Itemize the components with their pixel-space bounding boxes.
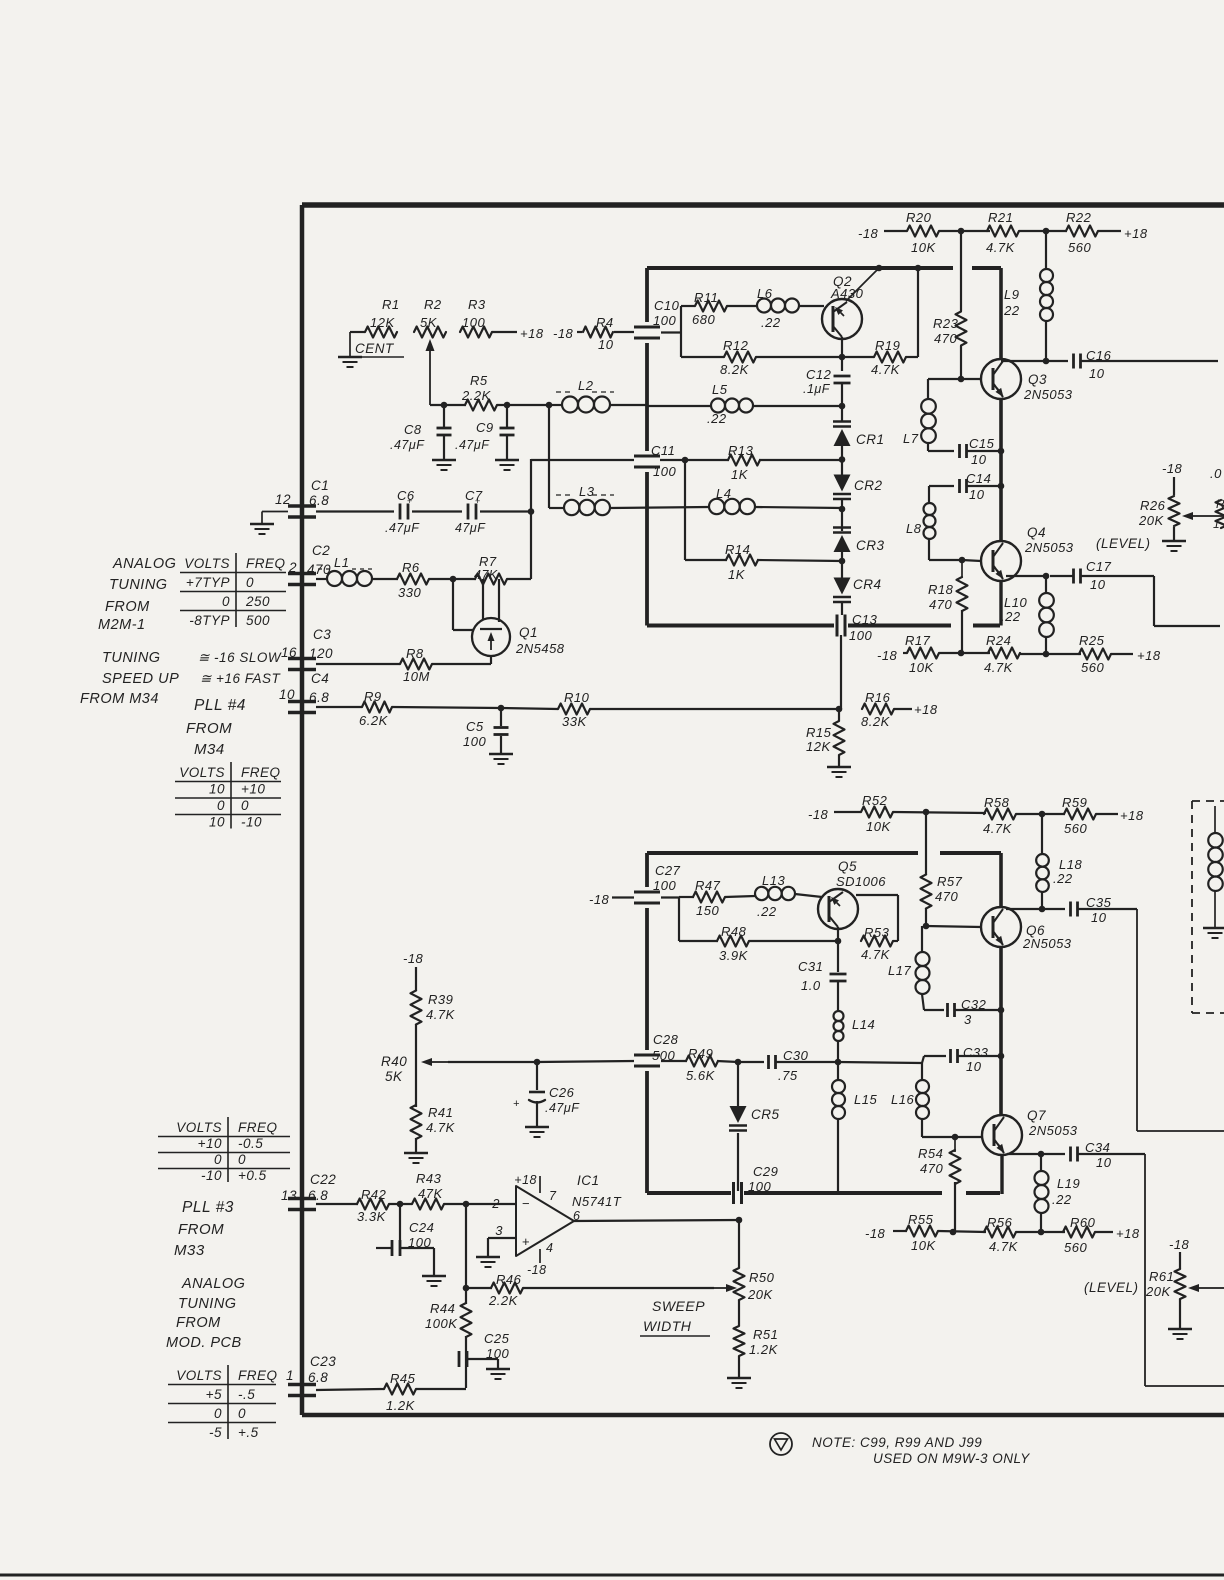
svg-text:C12: C12 (806, 367, 832, 382)
svg-text:20K: 20K (1145, 1284, 1171, 1299)
svg-text:-.5: -.5 (238, 1387, 255, 1402)
svg-text:4.7K: 4.7K (871, 362, 901, 377)
svg-text:C27: C27 (655, 863, 681, 878)
svg-text:L18: L18 (1059, 857, 1082, 872)
svg-text:+18: +18 (1137, 648, 1161, 663)
svg-text:R5: R5 (470, 373, 488, 388)
svg-text:-10: -10 (241, 815, 262, 830)
svg-text:470: 470 (935, 889, 958, 904)
svg-text:560: 560 (1068, 240, 1091, 255)
svg-text:VOLTS: VOLTS (176, 1368, 222, 1383)
svg-text:≅ -16 SLOW: ≅ -16 SLOW (198, 650, 282, 665)
svg-text:R43: R43 (416, 1171, 442, 1186)
svg-text:4.7K: 4.7K (984, 660, 1014, 675)
svg-text:6.8: 6.8 (309, 493, 329, 508)
svg-text:4.7K: 4.7K (861, 947, 891, 962)
svg-text:VOLTS: VOLTS (176, 1120, 222, 1135)
svg-text:C14: C14 (966, 471, 991, 486)
svg-text:100: 100 (849, 628, 872, 643)
svg-text:.47μF: .47μF (545, 1101, 580, 1115)
svg-text:R17: R17 (905, 633, 931, 648)
svg-text:CR1: CR1 (856, 432, 885, 447)
svg-text:CENT: CENT (355, 341, 395, 356)
svg-text:R51: R51 (753, 1327, 778, 1342)
svg-text:-18: -18 (403, 951, 424, 966)
svg-text:4.7K: 4.7K (989, 1239, 1019, 1254)
svg-text:10: 10 (966, 1059, 982, 1074)
svg-text:100: 100 (462, 315, 485, 330)
svg-text:.47μF: .47μF (390, 438, 425, 452)
svg-text:FREQ: FREQ (238, 1368, 278, 1383)
svg-text:47K: 47K (474, 568, 498, 582)
svg-text:IC1: IC1 (577, 1173, 600, 1188)
svg-text:1K: 1K (728, 567, 746, 582)
svg-text:R9: R9 (364, 689, 382, 704)
svg-text:R10: R10 (564, 690, 590, 705)
svg-text:-0.5: -0.5 (238, 1136, 263, 1151)
svg-text:R59: R59 (1062, 795, 1087, 810)
svg-text:L14: L14 (852, 1017, 875, 1032)
svg-text:+10: +10 (241, 782, 265, 797)
svg-text:6.8: 6.8 (308, 1370, 328, 1385)
svg-text:6.8: 6.8 (309, 690, 329, 705)
svg-text:10: 10 (1096, 1155, 1112, 1170)
svg-text:R40: R40 (381, 1054, 407, 1069)
svg-text:L9: L9 (1004, 287, 1019, 302)
svg-text:C22: C22 (310, 1172, 336, 1187)
svg-text:R1: R1 (382, 297, 400, 312)
svg-text:0: 0 (222, 594, 230, 609)
svg-text:R20: R20 (906, 210, 932, 225)
svg-text:1.0: 1.0 (801, 978, 821, 993)
svg-text:L7: L7 (903, 431, 919, 446)
svg-text:1.2K: 1.2K (386, 1398, 416, 1413)
svg-text:FROM: FROM (178, 1221, 224, 1238)
svg-text:2.2K: 2.2K (488, 1293, 519, 1308)
svg-text:R49: R49 (688, 1046, 713, 1061)
svg-text:10: 10 (1091, 910, 1107, 925)
svg-text:CR2: CR2 (854, 478, 883, 493)
svg-text:R24: R24 (986, 633, 1011, 648)
svg-text:(LEVEL): (LEVEL) (1096, 536, 1151, 551)
svg-text:VOLTS: VOLTS (184, 556, 230, 571)
svg-text:C30: C30 (783, 1048, 809, 1063)
svg-text:3.3K: 3.3K (357, 1209, 387, 1224)
svg-text:.22: .22 (761, 315, 781, 330)
svg-text:C24: C24 (409, 1220, 434, 1235)
svg-text:1.2K: 1.2K (749, 1342, 779, 1357)
svg-text:.75: .75 (778, 1068, 798, 1083)
svg-text:330: 330 (398, 585, 421, 600)
svg-text:1: 1 (286, 1368, 294, 1383)
svg-text:C23: C23 (310, 1354, 336, 1369)
svg-text:R56: R56 (987, 1215, 1013, 1230)
svg-text:8.2K: 8.2K (720, 362, 750, 377)
svg-text:3: 3 (964, 1012, 972, 1027)
svg-text:C29: C29 (753, 1164, 778, 1179)
svg-text:20K: 20K (1138, 513, 1164, 528)
svg-text:R23: R23 (933, 316, 959, 331)
svg-text:CR3: CR3 (856, 538, 885, 553)
svg-text:150: 150 (696, 903, 719, 918)
svg-text:120: 120 (309, 646, 333, 661)
svg-text:2N5053: 2N5053 (1028, 1123, 1078, 1138)
svg-text:C3: C3 (313, 627, 331, 642)
svg-text:4.7K: 4.7K (986, 240, 1016, 255)
svg-text:+18: +18 (520, 326, 544, 341)
svg-text:−: − (522, 1196, 530, 1211)
svg-text:R8: R8 (406, 646, 424, 661)
svg-text:FREQ: FREQ (238, 1120, 278, 1135)
svg-text:R22: R22 (1066, 210, 1092, 225)
svg-text:R46: R46 (496, 1272, 522, 1287)
svg-text:47K: 47K (418, 1186, 443, 1201)
svg-text:ANALOG: ANALOG (181, 1276, 245, 1292)
svg-text:C31: C31 (798, 959, 823, 974)
svg-text:10: 10 (209, 782, 225, 797)
svg-text:2N5053: 2N5053 (1023, 387, 1073, 402)
svg-text:5K: 5K (385, 1069, 403, 1084)
svg-text:10: 10 (971, 452, 987, 467)
svg-text:10K: 10K (909, 660, 934, 675)
svg-text:C8: C8 (404, 422, 422, 437)
svg-text:Q4: Q4 (1027, 525, 1046, 540)
svg-text:R47: R47 (695, 878, 721, 893)
svg-text:12K: 12K (370, 315, 395, 330)
svg-text:VOLTS: VOLTS (179, 765, 225, 780)
svg-text:0: 0 (241, 798, 249, 813)
svg-text:L17: L17 (888, 963, 911, 978)
svg-text:R18: R18 (928, 582, 954, 597)
svg-text:R11: R11 (694, 290, 718, 305)
svg-text:0: 0 (238, 1152, 246, 1167)
svg-text:10K: 10K (866, 819, 891, 834)
svg-text:L8: L8 (906, 521, 922, 536)
svg-text:R41: R41 (428, 1105, 453, 1120)
svg-text:-5: -5 (209, 1425, 222, 1440)
svg-text:0: 0 (238, 1406, 246, 1421)
svg-text:470: 470 (929, 597, 952, 612)
svg-text:C28: C28 (653, 1032, 679, 1047)
svg-text:100: 100 (653, 313, 676, 328)
svg-text:L19: L19 (1057, 1176, 1080, 1191)
svg-text:7: 7 (549, 1189, 557, 1203)
svg-text:-8TYP: -8TYP (189, 613, 230, 628)
svg-text:R16: R16 (865, 690, 891, 705)
svg-text:.22: .22 (1001, 609, 1021, 624)
svg-text:FROM: FROM (105, 599, 150, 615)
svg-text:R13: R13 (728, 443, 754, 458)
svg-text:100: 100 (653, 878, 676, 893)
svg-text:R15: R15 (806, 725, 832, 740)
svg-text:TUNING: TUNING (109, 577, 168, 593)
svg-text:10: 10 (279, 687, 295, 702)
svg-text:C25: C25 (484, 1331, 510, 1346)
svg-text:-18: -18 (858, 226, 879, 241)
svg-text:R6: R6 (402, 560, 420, 575)
svg-text:C9: C9 (476, 420, 494, 435)
svg-text:C15: C15 (969, 436, 995, 451)
svg-text:5.6K: 5.6K (686, 1068, 716, 1083)
svg-text:0: 0 (246, 575, 254, 590)
svg-text:250: 250 (245, 594, 270, 609)
svg-text:L16: L16 (891, 1092, 914, 1107)
svg-text:.22: .22 (1053, 871, 1073, 886)
svg-text:(LEVEL): (LEVEL) (1084, 1280, 1139, 1295)
svg-text:100: 100 (748, 1179, 771, 1194)
svg-text:N5741T: N5741T (572, 1194, 622, 1209)
svg-text:FROM: FROM (176, 1315, 221, 1331)
svg-text:C35: C35 (1086, 895, 1112, 910)
svg-text:Q7: Q7 (1027, 1108, 1046, 1123)
svg-text:560: 560 (1081, 660, 1104, 675)
svg-text:13: 13 (281, 1188, 297, 1203)
svg-text:+: + (513, 1098, 520, 1110)
svg-text:C33: C33 (963, 1045, 989, 1060)
svg-text:100K: 100K (425, 1316, 458, 1331)
svg-text:+18: +18 (514, 1173, 537, 1187)
svg-text:R21: R21 (988, 210, 1013, 225)
svg-text:+0.5: +0.5 (238, 1168, 267, 1183)
svg-text:R57: R57 (937, 874, 963, 889)
svg-text:R39: R39 (428, 992, 453, 1007)
svg-text:R58: R58 (984, 795, 1010, 810)
svg-text:≅ +16 FAST: ≅ +16 FAST (200, 671, 281, 686)
svg-text:4: 4 (546, 1241, 553, 1255)
svg-text:.0: .0 (1210, 466, 1222, 481)
svg-text:.1μF: .1μF (803, 382, 831, 396)
svg-text:560: 560 (1064, 821, 1087, 836)
svg-text:2N5053: 2N5053 (1024, 540, 1074, 555)
svg-text:L10: L10 (1004, 595, 1027, 610)
svg-text:100: 100 (653, 464, 676, 479)
svg-text:M34: M34 (194, 741, 225, 758)
svg-text:+: + (522, 1234, 530, 1249)
svg-text:R48: R48 (721, 924, 747, 939)
svg-text:2: 2 (491, 1196, 500, 1211)
svg-text:-18: -18 (865, 1226, 886, 1241)
svg-text:SPEED UP: SPEED UP (102, 671, 179, 687)
svg-text:L5: L5 (712, 382, 728, 397)
svg-text:L4: L4 (716, 486, 731, 501)
svg-text:10K: 10K (911, 240, 936, 255)
svg-text:A430: A430 (830, 286, 864, 301)
svg-text:-18: -18 (527, 1263, 547, 1277)
svg-text:NOTE: C99, R99 AND J99: NOTE: C99, R99 AND J99 (812, 1435, 982, 1450)
svg-text:SD1006: SD1006 (836, 874, 886, 889)
svg-text:500: 500 (246, 613, 270, 628)
svg-text:12K: 12K (806, 739, 831, 754)
svg-text:6.8: 6.8 (308, 1188, 328, 1203)
svg-text:+10: +10 (198, 1136, 222, 1151)
svg-text:100: 100 (463, 734, 486, 749)
svg-text:2: 2 (288, 560, 297, 575)
svg-text:C34: C34 (1085, 1140, 1110, 1155)
svg-text:L2: L2 (578, 378, 594, 393)
svg-text:+18: +18 (1120, 808, 1144, 823)
svg-text:+.5: +.5 (238, 1425, 259, 1440)
svg-text:M33: M33 (174, 1242, 205, 1259)
svg-text:R61: R61 (1149, 1269, 1174, 1284)
svg-text:C2: C2 (312, 543, 330, 558)
svg-text:16: 16 (281, 645, 297, 660)
svg-text:FROM M34: FROM M34 (80, 691, 159, 707)
svg-text:.47μF: .47μF (455, 438, 490, 452)
svg-text:L6: L6 (757, 286, 773, 301)
svg-text:.22: .22 (707, 411, 727, 426)
svg-text:R26: R26 (1140, 498, 1166, 513)
svg-text:L1: L1 (334, 555, 349, 570)
svg-text:-18: -18 (808, 807, 829, 822)
svg-text:3.9K: 3.9K (719, 948, 749, 963)
svg-text:R52: R52 (862, 793, 888, 808)
svg-text:0: 0 (214, 1152, 222, 1167)
svg-text:+: + (475, 496, 481, 506)
svg-text:0: 0 (214, 1406, 222, 1421)
svg-text:10: 10 (1089, 366, 1105, 381)
svg-text:1.: 1. (1213, 517, 1224, 531)
svg-text:560: 560 (1064, 1240, 1087, 1255)
svg-text:+7TYP: +7TYP (186, 575, 230, 590)
svg-text:L3: L3 (579, 484, 595, 499)
svg-text:4.7K: 4.7K (426, 1007, 456, 1022)
svg-text:R42: R42 (361, 1187, 387, 1202)
svg-text:C32: C32 (961, 997, 987, 1012)
svg-text:R53: R53 (864, 925, 890, 940)
svg-text:PLL #3: PLL #3 (182, 1199, 234, 1216)
svg-text:L15: L15 (854, 1092, 877, 1107)
svg-text:Q5: Q5 (838, 859, 857, 874)
svg-text:L13: L13 (762, 873, 785, 888)
svg-text:2.2K: 2.2K (461, 388, 492, 403)
svg-text:R45: R45 (390, 1371, 416, 1386)
svg-text:6.2K: 6.2K (359, 713, 389, 728)
svg-text:Q1: Q1 (519, 625, 538, 640)
svg-text:10: 10 (598, 337, 614, 352)
svg-text:C13: C13 (852, 612, 878, 627)
svg-text:R55: R55 (908, 1212, 934, 1227)
svg-text:-18: -18 (553, 326, 574, 341)
svg-text:.22: .22 (757, 904, 777, 919)
svg-text:+18: +18 (1124, 226, 1148, 241)
svg-text:R3: R3 (468, 297, 486, 312)
svg-text:C10: C10 (654, 298, 680, 313)
svg-text:C16: C16 (1086, 348, 1112, 363)
svg-text:C26: C26 (549, 1085, 575, 1100)
svg-text:-18: -18 (1169, 1237, 1190, 1252)
svg-text:R54: R54 (918, 1146, 943, 1161)
svg-text:1K: 1K (731, 467, 749, 482)
svg-text:100: 100 (486, 1346, 509, 1361)
svg-text:C17: C17 (1086, 559, 1112, 574)
svg-text:R19: R19 (875, 338, 900, 353)
svg-text:R7: R7 (479, 554, 497, 569)
svg-text:10K: 10K (911, 1238, 936, 1253)
svg-text:FREQ: FREQ (246, 556, 286, 571)
svg-text:C4: C4 (311, 671, 329, 686)
svg-text:+5: +5 (206, 1387, 222, 1402)
svg-text:WIDTH: WIDTH (643, 1318, 692, 1334)
svg-text:10: 10 (969, 487, 985, 502)
svg-text:5K: 5K (420, 315, 438, 330)
svg-text:470: 470 (934, 331, 957, 346)
svg-text:.22: .22 (1052, 1192, 1072, 1207)
svg-text:CR5: CR5 (751, 1107, 780, 1122)
svg-text:680: 680 (692, 312, 715, 327)
svg-text:-18: -18 (877, 648, 898, 663)
svg-text:0: 0 (217, 798, 225, 813)
svg-text:TUNING: TUNING (102, 650, 161, 666)
svg-text:4.7K: 4.7K (426, 1120, 456, 1135)
svg-text:C11: C11 (651, 443, 675, 458)
svg-text:R2: R2 (424, 297, 442, 312)
svg-text:10: 10 (1090, 577, 1106, 592)
svg-text:.47μF: .47μF (385, 521, 420, 535)
svg-text:+18: +18 (914, 702, 938, 717)
svg-text:R60: R60 (1070, 1215, 1096, 1230)
svg-text:USED ON M9W-3 ONLY: USED ON M9W-3 ONLY (873, 1451, 1030, 1466)
svg-text:C5: C5 (466, 719, 484, 734)
svg-text:-10: -10 (201, 1168, 222, 1183)
svg-text:R50: R50 (749, 1270, 775, 1285)
svg-text:R12: R12 (723, 338, 749, 353)
svg-text:12: 12 (275, 492, 291, 507)
svg-text:.22: .22 (1000, 303, 1020, 318)
svg-text:10: 10 (209, 815, 225, 830)
svg-text:TUNING: TUNING (178, 1296, 237, 1312)
svg-text:-18: -18 (1162, 461, 1183, 476)
svg-text:PLL #4: PLL #4 (194, 697, 246, 714)
svg-text:R44: R44 (430, 1301, 455, 1316)
svg-text:+: + (407, 496, 413, 506)
svg-text:R25: R25 (1079, 633, 1105, 648)
svg-text:ANALOG: ANALOG (112, 556, 176, 572)
svg-text:3: 3 (495, 1223, 503, 1238)
svg-text:FROM: FROM (186, 720, 232, 737)
svg-text:470: 470 (920, 1161, 943, 1176)
svg-text:SWEEP: SWEEP (652, 1298, 705, 1314)
svg-text:+18: +18 (1116, 1226, 1140, 1241)
svg-text:-18: -18 (589, 892, 610, 907)
svg-text:C1: C1 (311, 478, 329, 493)
svg-text:47μF: 47μF (455, 521, 486, 535)
svg-text:20K: 20K (747, 1287, 773, 1302)
svg-text:2N5053: 2N5053 (1022, 936, 1072, 951)
svg-text:CR4: CR4 (853, 577, 882, 592)
svg-text:33K: 33K (562, 714, 587, 729)
svg-text:M2M-1: M2M-1 (98, 617, 146, 633)
svg-text:FREQ: FREQ (241, 765, 281, 780)
svg-text:R14: R14 (725, 542, 750, 557)
svg-text:10M: 10M (403, 669, 430, 684)
svg-text:4.7K: 4.7K (983, 821, 1013, 836)
svg-text:Q3: Q3 (1028, 372, 1047, 387)
svg-text:100: 100 (408, 1235, 431, 1250)
svg-text:2N5458: 2N5458 (515, 641, 565, 656)
svg-text:MOD. PCB: MOD. PCB (166, 1335, 242, 1351)
svg-text:R4: R4 (596, 315, 614, 330)
svg-text:8.2K: 8.2K (861, 714, 891, 729)
